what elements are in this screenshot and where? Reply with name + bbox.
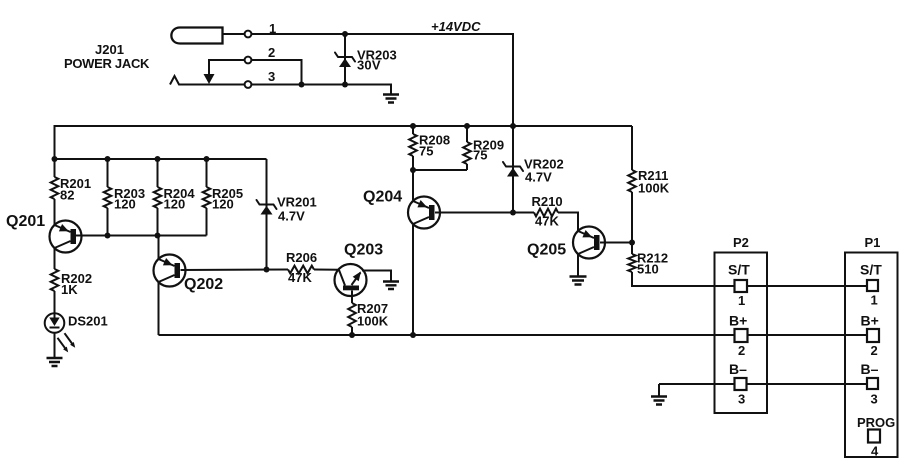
wire Q205 emitter to ground	[577, 254, 579, 276]
wire Q202 base to R206	[181, 269, 289, 272]
ground B-	[651, 397, 667, 405]
wire R208 R209 link	[413, 169, 467, 171]
svg-text:3: 3	[738, 392, 745, 407]
P1 pin 2 B+	[861, 313, 880, 359]
wire Q202 emitter drop	[158, 282, 160, 335]
svg-text:510: 510	[637, 262, 659, 277]
wire main +14V bus	[55, 125, 633, 127]
junction dot pin3 line	[299, 82, 305, 88]
svg-text:POWER JACK: POWER JACK	[64, 56, 150, 71]
svg-text:1: 1	[871, 293, 878, 308]
svg-text:100K: 100K	[638, 181, 670, 196]
connector J201 plug barrel	[171, 28, 222, 44]
wire DS201 to ground	[54, 333, 56, 359]
svg-text:B–: B–	[861, 361, 879, 377]
wire R212 to S/T	[632, 272, 735, 286]
junction dot base rail R203	[105, 233, 111, 239]
wire B+ link	[748, 334, 868, 336]
svg-text:DS201: DS201	[68, 314, 108, 329]
svg-text:S/T: S/T	[860, 262, 882, 278]
label R204 120	[164, 186, 196, 212]
junction dot R203 top	[105, 156, 111, 162]
junction dot base rail R204	[155, 233, 161, 239]
wire R205 top lead	[206, 159, 208, 236]
junction dot R207 bottom	[349, 332, 355, 338]
svg-text:4.7V: 4.7V	[525, 170, 552, 185]
svg-text:Q204: Q204	[363, 189, 402, 206]
svg-text:47K: 47K	[288, 270, 312, 285]
svg-text:4: 4	[871, 444, 879, 459]
transistor Q204	[408, 197, 440, 229]
label VR201 4.7V	[277, 195, 317, 224]
wire Q203 to R207	[351, 291, 353, 304]
wire second rail	[55, 158, 267, 160]
wire pin 1 to +14VDC corner	[251, 33, 513, 35]
svg-text:75: 75	[473, 148, 487, 163]
label DS201	[68, 314, 108, 329]
label Q202	[184, 276, 223, 293]
label R202 1K	[61, 271, 92, 297]
junction dot Q205 base node	[629, 240, 635, 246]
svg-text:S/T: S/T	[728, 262, 750, 278]
P2 pin 1 S/T	[728, 262, 750, 309]
label R205 120	[212, 186, 243, 212]
label P2	[733, 235, 749, 250]
LED DS201	[45, 313, 75, 352]
wire VR202 drop	[512, 126, 514, 213]
label +14VDC	[431, 19, 481, 34]
label R206 47K	[286, 250, 317, 285]
jack pin 2	[245, 45, 276, 63]
jack sleeve contact	[170, 76, 245, 85]
resistor R205	[203, 187, 211, 208]
label R208 75	[419, 133, 450, 159]
resistor R202	[51, 269, 59, 291]
jack switch arm with arrow	[204, 60, 245, 84]
resistor R211	[628, 170, 636, 192]
wire S/T link	[747, 285, 867, 287]
wire R203 top lead	[107, 159, 109, 236]
zener diode VR202	[503, 162, 523, 177]
P1 pin 3 B-	[861, 361, 879, 407]
label Q204	[363, 189, 402, 206]
wire Q201 emitter to R202	[54, 248, 56, 269]
resistor R207	[348, 303, 356, 327]
transistor Q201	[50, 221, 82, 253]
resistor R209	[463, 142, 471, 164]
svg-text:P1: P1	[865, 235, 881, 250]
wire R209 leads	[466, 126, 468, 170]
label VR203 30V	[357, 48, 397, 73]
junction dot VR203 top	[342, 31, 348, 37]
wire R211 leads	[631, 126, 633, 254]
wire R210 left lead	[513, 212, 534, 214]
junction dot R208 bottom	[410, 167, 416, 173]
svg-text:30V: 30V	[357, 58, 381, 73]
connector P2 outline	[715, 253, 768, 414]
wire Q205 base to R212 node	[600, 242, 632, 244]
junction dot Q204 bottom	[410, 332, 416, 338]
wire left drop to R201	[54, 125, 56, 225]
transistor Q203	[335, 264, 367, 296]
wire R208 leads	[412, 126, 414, 335]
svg-text:2: 2	[268, 45, 275, 60]
svg-text:R210: R210	[532, 194, 563, 209]
svg-text:B+: B+	[729, 313, 747, 329]
label P1	[865, 235, 881, 250]
wire VR203 branch	[344, 34, 346, 85]
wire pin 3 to ground	[251, 85, 391, 95]
svg-text:75: 75	[419, 144, 433, 159]
svg-text:120: 120	[114, 197, 136, 212]
svg-text:120: 120	[164, 197, 186, 212]
wire B- to ground	[659, 384, 735, 396]
resistor R210	[534, 209, 558, 217]
wire pin 2 to pin 3 line	[251, 60, 301, 85]
wire R210 to Q205	[558, 213, 578, 232]
svg-text:3: 3	[268, 69, 275, 84]
junction dot +14 drop on bus	[510, 123, 516, 129]
svg-text:120: 120	[212, 197, 234, 212]
label R211 100K	[638, 168, 670, 196]
label J201 POWER JACK	[64, 42, 150, 71]
zener diode VR203	[335, 53, 355, 68]
resistor R203	[104, 187, 112, 208]
P2 pin 3 B-	[729, 361, 747, 407]
wire R206 to Q203	[314, 269, 340, 271]
svg-text:1K: 1K	[61, 282, 78, 297]
ground DS201	[47, 358, 63, 366]
svg-text:Q203: Q203	[344, 242, 383, 259]
svg-text:Q202: Q202	[184, 276, 223, 293]
svg-text:R206: R206	[286, 250, 317, 265]
junction dot R208 top	[410, 123, 416, 129]
svg-text:Q205: Q205	[527, 242, 566, 259]
transistor Q205	[573, 227, 605, 259]
svg-text:P2: P2	[733, 235, 749, 250]
label R210 47K	[532, 194, 563, 229]
wire B+ bus	[159, 334, 735, 336]
wire R204 top lead	[157, 159, 159, 236]
zener diode VR201	[257, 200, 277, 215]
svg-text:2: 2	[871, 343, 878, 358]
wire Q204 base to VR202 node	[435, 212, 513, 214]
junction dot rail left	[52, 156, 58, 162]
svg-text:4.7V: 4.7V	[278, 209, 305, 224]
svg-text:Q201: Q201	[6, 213, 45, 230]
P1 pin 1 S/T	[860, 262, 882, 308]
resistor R208	[409, 134, 417, 156]
wire +14VDC drop to bus	[512, 33, 514, 126]
svg-text:B+: B+	[861, 313, 879, 329]
label R203 120	[114, 186, 145, 212]
label Q205	[527, 242, 566, 259]
label Q201	[6, 213, 45, 230]
svg-text:VR201: VR201	[277, 195, 317, 210]
label R209 75	[473, 138, 504, 163]
svg-text:B–: B–	[729, 361, 747, 377]
wire B- link	[747, 383, 868, 385]
svg-text:J201: J201	[95, 42, 124, 57]
resistor R212	[628, 254, 636, 272]
svg-text:+14VDC: +14VDC	[431, 19, 481, 34]
connector P1 outline	[845, 253, 898, 458]
wire R202 to DS201	[54, 291, 56, 314]
jack pin 3	[245, 69, 276, 88]
wire Q203 emitter to ground	[362, 271, 391, 282]
svg-text:47K: 47K	[535, 214, 559, 229]
resistor R206	[288, 266, 314, 274]
junction dot R205 top	[204, 156, 210, 162]
wire R207 to B+ bus	[351, 327, 353, 335]
svg-text:2: 2	[738, 343, 745, 358]
junction dot VR201 bottom	[264, 267, 270, 273]
wire barrel to pin 1	[222, 33, 245, 35]
svg-text:PROG: PROG	[857, 415, 895, 430]
wire VR201 drop	[266, 159, 268, 270]
ground Q203	[383, 282, 399, 290]
label R212 510	[637, 251, 668, 277]
label Q203	[344, 242, 383, 259]
wire Q201 base rail	[76, 235, 207, 237]
ground Q205	[570, 277, 587, 285]
svg-text:3: 3	[871, 392, 878, 407]
label R207 100K	[357, 301, 389, 329]
resistor R201	[51, 177, 59, 199]
junction dot R209 top	[464, 123, 470, 129]
transistor Q202	[154, 255, 186, 287]
P1 pin 4 PROG	[857, 415, 895, 459]
wire Q202 collector lead	[158, 236, 160, 260]
resistor R204	[154, 187, 162, 208]
ground jack sleeve	[383, 95, 399, 103]
label R201 82	[60, 176, 91, 203]
P2 pin 2 B+	[729, 313, 748, 359]
jack pin 1	[245, 21, 277, 37]
svg-text:82: 82	[60, 188, 74, 203]
junction dot VR203 bottom	[342, 82, 348, 88]
svg-text:1: 1	[738, 293, 745, 308]
svg-text:100K: 100K	[357, 314, 389, 329]
junction dot VR202 bottom	[510, 210, 516, 216]
junction dot R204 top	[155, 156, 161, 162]
label VR202 4.7V	[524, 157, 564, 185]
